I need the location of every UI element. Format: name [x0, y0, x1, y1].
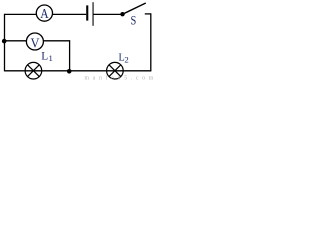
svg-text:V: V: [31, 36, 40, 51]
svg-text:manfen5.com: manfen5.com: [85, 74, 156, 81]
svg-text:2: 2: [124, 54, 128, 64]
svg-text:L: L: [41, 50, 48, 62]
svg-text:A: A: [40, 7, 49, 22]
svg-text:1: 1: [49, 53, 53, 63]
svg-text:S: S: [131, 13, 137, 27]
